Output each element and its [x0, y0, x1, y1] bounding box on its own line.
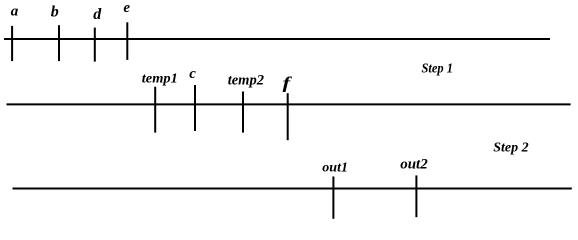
tick out1 [332, 177, 334, 219]
svg-text:temp2: temp2 [228, 73, 265, 89]
tick e [126, 22, 128, 60]
svg-text:b: b [51, 4, 59, 21]
tick b [58, 25, 60, 61]
svg-text:Step 1: Step 1 [422, 62, 453, 77]
svg-text:d: d [93, 6, 102, 23]
svg-text:Step 2: Step 2 [493, 140, 528, 155]
tick temp1 [154, 87, 156, 133]
tick d [94, 28, 96, 62]
svg-text:c: c [189, 66, 196, 82]
tick f [287, 93, 289, 140]
timeline line Step 3 [13, 188, 572, 190]
svg-text:temp1: temp1 [142, 72, 178, 87]
tick c [194, 85, 196, 131]
svg-text:out2: out2 [400, 156, 428, 172]
svg-text:a: a [11, 4, 19, 20]
tick out2 [415, 175, 417, 217]
svg-text:f: f [282, 74, 292, 93]
timeline line Step 1 [4, 38, 550, 40]
tick a [11, 26, 13, 61]
svg-text:e: e [123, 0, 130, 16]
tick temp2 [242, 92, 244, 133]
timeline line Step 2 [7, 103, 571, 105]
svg-text:out1: out1 [322, 161, 348, 176]
